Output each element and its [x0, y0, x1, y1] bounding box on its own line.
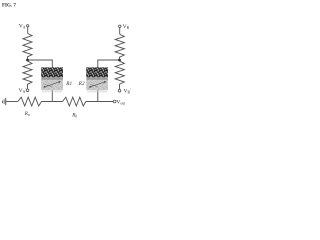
svg-text:Rb: Rb: [71, 112, 77, 118]
svg-text:Ra: Ra: [24, 111, 30, 117]
svg-text:R1: R1: [65, 81, 72, 87]
svg-text:VA′: VA′: [19, 87, 27, 94]
svg-text:Vout: Vout: [116, 99, 125, 105]
svg-text:VB′: VB′: [124, 88, 131, 95]
svg-text:R2: R2: [78, 81, 85, 87]
svg-text:VA: VA: [19, 24, 26, 30]
svg-text:FIG. 7: FIG. 7: [2, 4, 16, 9]
svg-text:VB: VB: [123, 24, 130, 30]
